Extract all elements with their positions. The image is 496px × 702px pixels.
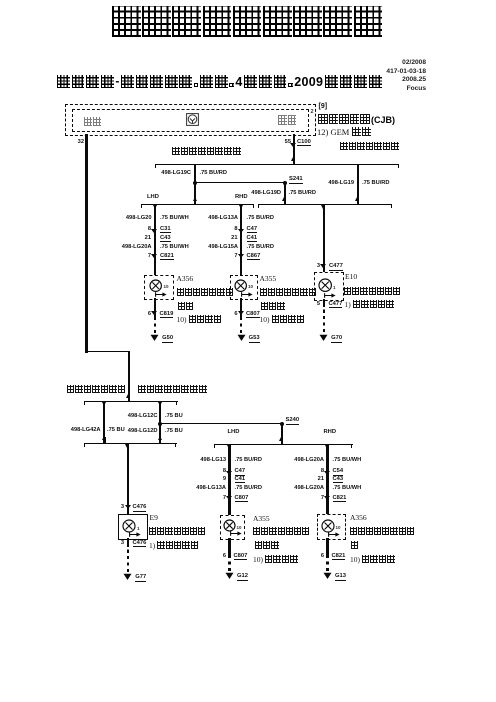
label 车外后视镜，乘客 bbox=[350, 527, 415, 535]
label 不带车门控制模块 (diagram2) bbox=[138, 385, 207, 394]
wire joint arrow bbox=[153, 205, 157, 209]
wire bbox=[284, 198, 286, 204]
wire joint arrow bbox=[102, 436, 106, 440]
feed arrow A356 bbox=[155, 292, 167, 297]
turn signal lamp in A355 bbox=[233, 278, 248, 293]
junction on LG19C bbox=[193, 181, 197, 185]
connector C41 bbox=[235, 476, 246, 484]
connector C100 arrow on wire bbox=[290, 143, 296, 147]
pin 7 bbox=[234, 253, 237, 260]
wire splice branch to S241 bbox=[195, 182, 285, 183]
wire label 498-LG19C bbox=[161, 170, 191, 177]
feed arrow E10 bbox=[324, 293, 336, 298]
ground label G77 bbox=[135, 574, 146, 582]
connector C807 bottom bbox=[234, 553, 248, 561]
component ref A355 bbox=[260, 275, 277, 284]
wire joint arrow bbox=[239, 205, 243, 209]
splice S240 dot bbox=[280, 422, 284, 426]
option label RHD bbox=[235, 194, 248, 201]
connector C867 bbox=[247, 253, 261, 261]
mirror lamp A355 dashed box (diagram2) bbox=[220, 515, 245, 540]
label 1) 转向信号灯 bbox=[345, 300, 394, 309]
pin 7 bbox=[223, 495, 226, 502]
label 客侧 bbox=[178, 302, 193, 310]
module outer dashed box (CJB) bbox=[65, 104, 316, 136]
wire label 498-LG20A bbox=[122, 244, 152, 251]
splice S241 bbox=[289, 176, 303, 184]
ground G77 bbox=[123, 573, 132, 581]
wire E9 bottom stub bbox=[127, 538, 129, 547]
label 10) 转向信号 bbox=[253, 555, 298, 564]
connector arrow C47/C41 bbox=[238, 229, 244, 233]
wire 498-LG12C vertical bbox=[159, 401, 161, 443]
wire label .75 BU bbox=[165, 413, 183, 420]
wire label 498-LG15A bbox=[208, 244, 238, 251]
connector arrow C821 bbox=[151, 254, 157, 258]
subtitle 外部灯光-转向信号灯，后部，4门车型，2009年起车型 bbox=[57, 75, 382, 89]
mirror lamp A356 dashed box (diagram2) bbox=[317, 514, 346, 540]
option label LHD bbox=[228, 429, 240, 436]
wire label 498-LG12C bbox=[128, 413, 158, 420]
label 1) 转向信号灯 bbox=[149, 541, 198, 550]
ground label G12 bbox=[237, 573, 248, 581]
pin 1 (E9 internal) bbox=[137, 526, 140, 531]
connector C47 bbox=[247, 226, 258, 234]
pin 10 (A355 internal) bbox=[248, 284, 253, 289]
wire label 498-LG19 bbox=[328, 180, 354, 187]
wire label .75 BU/WH bbox=[160, 244, 189, 251]
connector C47 bbox=[235, 468, 246, 476]
label 左转 (left turn) bbox=[84, 117, 101, 126]
pin 1 (E10 internal) bbox=[333, 285, 336, 290]
wire bbox=[293, 158, 295, 164]
wire 498-LG19C vertical bbox=[194, 165, 196, 205]
pin 55 bbox=[285, 139, 291, 146]
wire to A356 mirror bbox=[154, 205, 156, 276]
pin 5 bbox=[317, 301, 320, 308]
wire label .75 BU/RD bbox=[200, 170, 228, 177]
splice S240 bbox=[286, 417, 300, 425]
wire bbox=[194, 198, 196, 204]
dashed wire to ground G50 bbox=[154, 317, 156, 333]
label 10) 转向信号 bbox=[260, 315, 305, 324]
wire 498-LG19D vertical bbox=[284, 182, 286, 204]
wire joint arrow bbox=[158, 402, 162, 406]
wire label .75 BU/WH bbox=[160, 215, 189, 222]
component ref A356 bbox=[177, 275, 194, 284]
connector C821 bottom bbox=[332, 553, 346, 561]
pin 10 (A356 internal) bbox=[164, 284, 169, 289]
option bracket (to E9) bbox=[84, 443, 177, 444]
wire label .75 BU bbox=[107, 427, 125, 434]
doc info block (02/2008 / 417-01-03-18 / 2008.25 / Focus) bbox=[386, 59, 426, 93]
connector C43 bbox=[160, 235, 171, 243]
wire joint arrow bbox=[227, 445, 231, 449]
label 12) GEM 模块 bbox=[317, 127, 371, 137]
feed arrow A355 (diagram2) bbox=[230, 531, 242, 536]
dashed wire to ground G12 bbox=[228, 556, 230, 571]
label 车外后视镜，乘 (exterior mirror passenger) bbox=[177, 288, 233, 296]
wire E10 bottom stub bbox=[323, 299, 325, 307]
connector C807 bbox=[246, 311, 260, 319]
pin 7 bbox=[148, 253, 151, 260]
dashed wire to ground G70 bbox=[323, 307, 325, 332]
wire bbox=[281, 438, 283, 444]
ground G13 bbox=[323, 572, 332, 580]
wire label .75 BU/WH bbox=[333, 485, 362, 492]
wire to E10 rear lamp bbox=[323, 205, 325, 273]
label 中央接线盒 (CJB) bold bbox=[318, 114, 395, 125]
connector C819 bbox=[160, 311, 174, 319]
label 带车门控制模块 (diagram2) bbox=[67, 385, 126, 393]
pin 8 bbox=[234, 226, 237, 233]
wire joint arrow bbox=[126, 394, 130, 398]
connector C43 bbox=[333, 476, 344, 484]
pin 9 bbox=[223, 476, 226, 483]
splice S241 dot bbox=[283, 181, 287, 185]
connector arrow C807 bbox=[238, 311, 244, 315]
wire label .75 BU/RD bbox=[247, 215, 275, 222]
wire to E9 rear lamp bbox=[127, 444, 129, 515]
tag [9] bbox=[319, 103, 328, 111]
label 侧 bbox=[351, 541, 358, 549]
option bracket (module output) bbox=[155, 164, 399, 165]
connector arrow C819 bbox=[151, 311, 157, 315]
mirror lamp A356 dashed box bbox=[144, 275, 174, 300]
module inner dashed box bbox=[72, 109, 309, 132]
component ref E9 bbox=[150, 514, 158, 523]
wire bbox=[159, 437, 161, 443]
pin 8 bbox=[223, 468, 226, 475]
option bracket LHD/RHD (mirrors) bbox=[141, 204, 254, 205]
pin 21 bbox=[145, 235, 151, 242]
turn signal lamp in A356 bbox=[148, 278, 163, 293]
connector arrow C867 bbox=[238, 254, 244, 258]
dashed wire to ground G53 bbox=[240, 317, 242, 333]
wire label .75 BU/RD bbox=[247, 244, 275, 251]
wire joint arrow bbox=[193, 197, 197, 201]
pin 6 bbox=[321, 553, 324, 560]
turn signal lamp in A355 (diagram2) bbox=[222, 518, 237, 533]
option bracket (rear lamp feed) bbox=[258, 204, 393, 205]
pin 3 bbox=[121, 504, 124, 511]
ground label G53 bbox=[249, 335, 260, 343]
pin 32 bbox=[78, 139, 84, 146]
ground G12 bbox=[225, 572, 234, 580]
ground G50 bbox=[150, 334, 159, 342]
wire pin32 down to bracket B1 bbox=[128, 351, 130, 400]
dashed wire to ground G77 bbox=[127, 546, 129, 572]
label 驶员侧 bbox=[255, 541, 279, 549]
connector C477 (bottom) bbox=[329, 301, 343, 309]
feed arrow A356 (diagram2) bbox=[328, 532, 340, 537]
label 车外后视镜，驾 bbox=[253, 527, 309, 535]
dashed wire to ground G13 bbox=[326, 556, 328, 571]
wire joint arrow bbox=[102, 402, 106, 406]
pin 7 bbox=[321, 495, 324, 502]
pin 3 bottom bbox=[121, 540, 124, 547]
pin 3 bbox=[317, 263, 320, 270]
wire joint arrow bbox=[158, 436, 162, 440]
connector C477 (top) bbox=[329, 263, 343, 271]
connector C807 bbox=[235, 495, 249, 503]
wire label .75 BU/RD bbox=[289, 190, 317, 197]
page title 汽车技师帮技术资料 (striped glyph blocks) bbox=[112, 6, 382, 37]
pin 21 bbox=[318, 476, 324, 483]
label 带车门控制模块 (diagram1) bbox=[340, 142, 399, 150]
flasher icon bbox=[186, 113, 199, 126]
wire label 498-LG13A bbox=[208, 215, 238, 222]
wire pin32 left feed down bbox=[85, 134, 87, 353]
connector C476 (bottom) bbox=[133, 540, 147, 548]
label 驶员侧 bbox=[261, 302, 285, 310]
wire joint arrow bbox=[325, 445, 329, 449]
pin 8 bbox=[148, 226, 151, 233]
wire label 498-LG13 bbox=[200, 457, 226, 464]
pin 8 bbox=[321, 468, 324, 475]
label 后灯总成，左侧 (rear lamp assy left) bbox=[149, 527, 205, 535]
label 10) 转向信号 bbox=[350, 555, 395, 564]
component ref A356 bbox=[350, 514, 367, 523]
connector arrow C47/C41 (diagram2) bbox=[226, 471, 232, 475]
wire label 498-LG20 bbox=[126, 215, 152, 222]
connector C31 bbox=[160, 226, 171, 234]
wire 498-LG42A vertical bbox=[103, 401, 105, 443]
wire label 498-LG12D bbox=[128, 428, 158, 435]
wire label 498-LG13A bbox=[196, 485, 226, 492]
label 右转 (right turn) bbox=[278, 115, 296, 125]
wire A355 pin6 down bbox=[240, 298, 242, 317]
mirror lamp A355 dashed box bbox=[230, 275, 258, 300]
turn signal lamp in A356 (diagram2) bbox=[320, 518, 336, 534]
wire bbox=[104, 437, 106, 443]
connector C41 bbox=[247, 235, 258, 243]
ground label G70 bbox=[331, 335, 342, 343]
connector C100 bbox=[297, 139, 311, 147]
option bracket LHD/RHD (mirrors, diagram2) bbox=[214, 444, 353, 445]
rear lamp E10 dashed box bbox=[314, 272, 344, 301]
rear lamp E9 solid box bbox=[118, 514, 148, 540]
turn signal lamp in E9 bbox=[121, 518, 137, 534]
wire pin32 horizontal jog bbox=[85, 351, 130, 353]
component ref A355 bbox=[253, 515, 270, 524]
label 车外后视镜，驾 (exterior mirror driver) bbox=[260, 288, 316, 296]
ground label G13 bbox=[335, 573, 346, 581]
wire label 498-LG19D bbox=[251, 190, 281, 197]
wire label .75 BU bbox=[165, 428, 183, 435]
wire label .75 BU/RD bbox=[235, 457, 263, 464]
pin 10 (A355 internal) bbox=[237, 525, 242, 530]
connector arrow C54/C43 bbox=[324, 471, 330, 475]
wire 498-LG19 vertical (with door module) bbox=[357, 165, 359, 205]
connector C54 bbox=[333, 468, 344, 476]
feed arrow E9 bbox=[129, 532, 141, 537]
wire bbox=[357, 198, 359, 204]
ground G53 bbox=[237, 334, 246, 342]
pin 6 bbox=[234, 311, 237, 318]
wire to A355 (diagram2) bbox=[228, 445, 230, 515]
label 10) 转向信号 bbox=[177, 315, 222, 324]
option label RHD bbox=[324, 429, 337, 436]
pin 21 bbox=[231, 235, 237, 242]
option bracket (door module options) bbox=[84, 401, 178, 402]
pin 10 (A356 internal) bbox=[336, 525, 341, 530]
wire A356 pin6 down (diagram2) bbox=[326, 538, 328, 556]
connector C476 (top) bbox=[133, 504, 147, 512]
wire S240 down to LHD/RHD bracket bbox=[281, 424, 283, 444]
wire splice branch to S240 bbox=[160, 423, 282, 424]
turn signal lamp in E10 bbox=[317, 277, 333, 293]
connector arrow C807 (diagram2) bbox=[226, 496, 232, 500]
wire joint arrow bbox=[355, 197, 359, 201]
wire to A355 mirror bbox=[240, 205, 242, 276]
wire label .75 BU/WH bbox=[333, 457, 362, 464]
option label LHD bbox=[147, 194, 159, 201]
wire label 498-LG20A (lower) bbox=[294, 485, 324, 492]
wire A356 pin6 down bbox=[154, 298, 156, 317]
wire bbox=[128, 395, 130, 401]
connector C821 bbox=[333, 495, 347, 503]
wire joint arrow bbox=[282, 197, 286, 201]
wire label 498-LG42A bbox=[71, 427, 101, 434]
pin 6 bbox=[223, 553, 226, 560]
connector arrow C477 bbox=[320, 264, 326, 268]
wire label 498-LG20A bbox=[294, 457, 324, 464]
tag 2 bbox=[311, 109, 314, 115]
label 后灯总成，右侧 (rear lamp assy right) bbox=[344, 287, 400, 295]
wire joint arrow bbox=[321, 205, 325, 209]
connector arrow C31/C43 bbox=[151, 229, 157, 233]
wire to A356 (diagram2) bbox=[326, 445, 328, 515]
ground G70 bbox=[319, 334, 328, 342]
wire label .75 BU/RD bbox=[235, 485, 263, 492]
wire joint arrow bbox=[279, 437, 283, 441]
wire joint arrow bbox=[125, 444, 129, 448]
wire label .75 BU/RD bbox=[362, 180, 390, 187]
wire A355 pin6 down (diagram2) bbox=[228, 538, 230, 556]
connector C821 bbox=[160, 253, 174, 261]
wire pin55 down from C100 bbox=[293, 134, 295, 165]
ground label G50 bbox=[162, 335, 173, 343]
label 不带车门控制模块 (diagram1) bbox=[172, 147, 241, 156]
component ref E10 bbox=[345, 273, 357, 282]
connector arrow C821 (diagram2) bbox=[324, 496, 330, 500]
wire joint arrow bbox=[291, 157, 295, 161]
connector arrow C476 bbox=[125, 505, 131, 509]
feed arrow A355 bbox=[241, 292, 253, 297]
pin 6 bbox=[148, 311, 151, 318]
junction on LG12C bbox=[158, 422, 162, 426]
